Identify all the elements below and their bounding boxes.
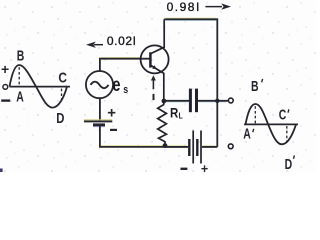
resistor RL label R [170, 104, 178, 120]
input waveform dashed line at peak B [18, 67, 20, 85]
ac source ES [86, 71, 113, 98]
wire junction to capacitor [164, 100, 189, 102]
battery B1 short plate [93, 125, 105, 127]
output waveform sine curve [246, 104, 297, 144]
output terminal bottom [228, 144, 233, 149]
capacitor C1 plate right [195, 89, 198, 113]
battery B2 short plate 2 [196, 139, 198, 156]
battery B2 short plate 1 [188, 139, 190, 156]
svg-text:+: + [107, 104, 116, 121]
current label 0.98I [167, 0, 201, 14]
node B label [17, 48, 25, 64]
current label 0.02I [107, 34, 137, 48]
battery B2 minus label [181, 168, 188, 170]
current arrow 0.98I [205, 3, 231, 9]
node A label [16, 89, 24, 105]
svg-text:B: B [17, 48, 25, 64]
wire battery B1 to bottom rail corner [100, 126, 165, 147]
node junction at right vertical [215, 99, 219, 103]
input waveform sine curve [10, 65, 68, 108]
resistor RL label subscript L [179, 111, 184, 121]
node D' label [285, 155, 295, 172]
svg-text:R: R [170, 104, 178, 120]
input polarity plus [1, 61, 9, 77]
output waveform dashed line at peak B' [254, 106, 256, 123]
bottom rail wire to battery B2 [165, 146, 188, 148]
battery B2 long plate 2 [200, 131, 202, 164]
svg-text:0.98I: 0.98I [167, 0, 201, 14]
svg-text:C: C [58, 69, 67, 85]
wire battery B2 to right vertical [202, 146, 217, 148]
svg-text:+: + [201, 162, 208, 172]
transistor Q1 base bar [149, 52, 152, 67]
battery B2 long plate 1 [192, 131, 194, 164]
current arrow 0.02I [86, 42, 103, 48]
transistor Q1 body [141, 45, 169, 73]
node junction RL bottom rail [163, 143, 168, 148]
battery B1 long plate [84, 120, 112, 122]
svg-text:+: + [1, 61, 9, 77]
svg-text:B: B [251, 79, 259, 95]
battery B1 plus label [107, 104, 116, 121]
capacitor C1 plate left [189, 89, 192, 113]
svg-text:D: D [56, 109, 64, 126]
wire capacitor to output terminal [198, 100, 228, 102]
node C label [58, 69, 67, 85]
battery B1 minus label [110, 129, 117, 131]
input waveform origin marker o [3, 85, 8, 90]
output waveform axis [244, 123, 298, 125]
transistor Q1 emitter lead with arrow [151, 65, 164, 101]
ac source label es [112, 74, 128, 96]
svg-text:A: A [243, 126, 251, 142]
svg-text:D: D [285, 156, 293, 172]
collector loop top wire and right vertical [164, 19, 217, 147]
input waveform dashed line near C and D [61, 89, 63, 100]
resistor RL [158, 101, 167, 147]
transistor Q1 collector lead [151, 19, 164, 53]
emitter current label I [153, 94, 155, 100]
svg-text:e: e [112, 74, 120, 95]
svg-text:A: A [16, 89, 24, 105]
svg-text:C: C [279, 107, 287, 123]
wire [101, 18, 226, 146]
output waveform dashed line at trough D' [286, 126, 288, 142]
node B' label [251, 79, 263, 95]
wire from source top to transistor base [100, 59, 150, 71]
svg-text:L: L [179, 111, 184, 121]
emitter current arrow [151, 75, 156, 89]
input waveform axis [10, 86, 71, 88]
wire source to battery B1 [99, 98, 101, 121]
output terminal top [228, 98, 233, 103]
node D label [56, 109, 64, 126]
scan mark bottom left corner [0, 169, 3, 173]
svg-text:0.02I: 0.02I [107, 34, 137, 48]
node junction emitter-RL-capacitor [162, 99, 167, 104]
svg-text:s: s [123, 84, 128, 96]
input polarity minus [1, 99, 10, 101]
node A' label [243, 126, 253, 142]
node C' label [279, 107, 289, 123]
battery B2 plus label [201, 162, 208, 176]
